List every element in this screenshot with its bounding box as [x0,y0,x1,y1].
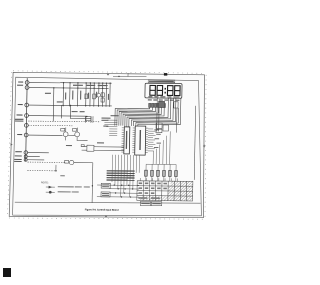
svg-text:NOTE:: NOTE: [41,180,49,184]
svg-text:Figure 9-9. Control Input Boar: Figure 9-9. Control Input Board [85,208,119,211]
